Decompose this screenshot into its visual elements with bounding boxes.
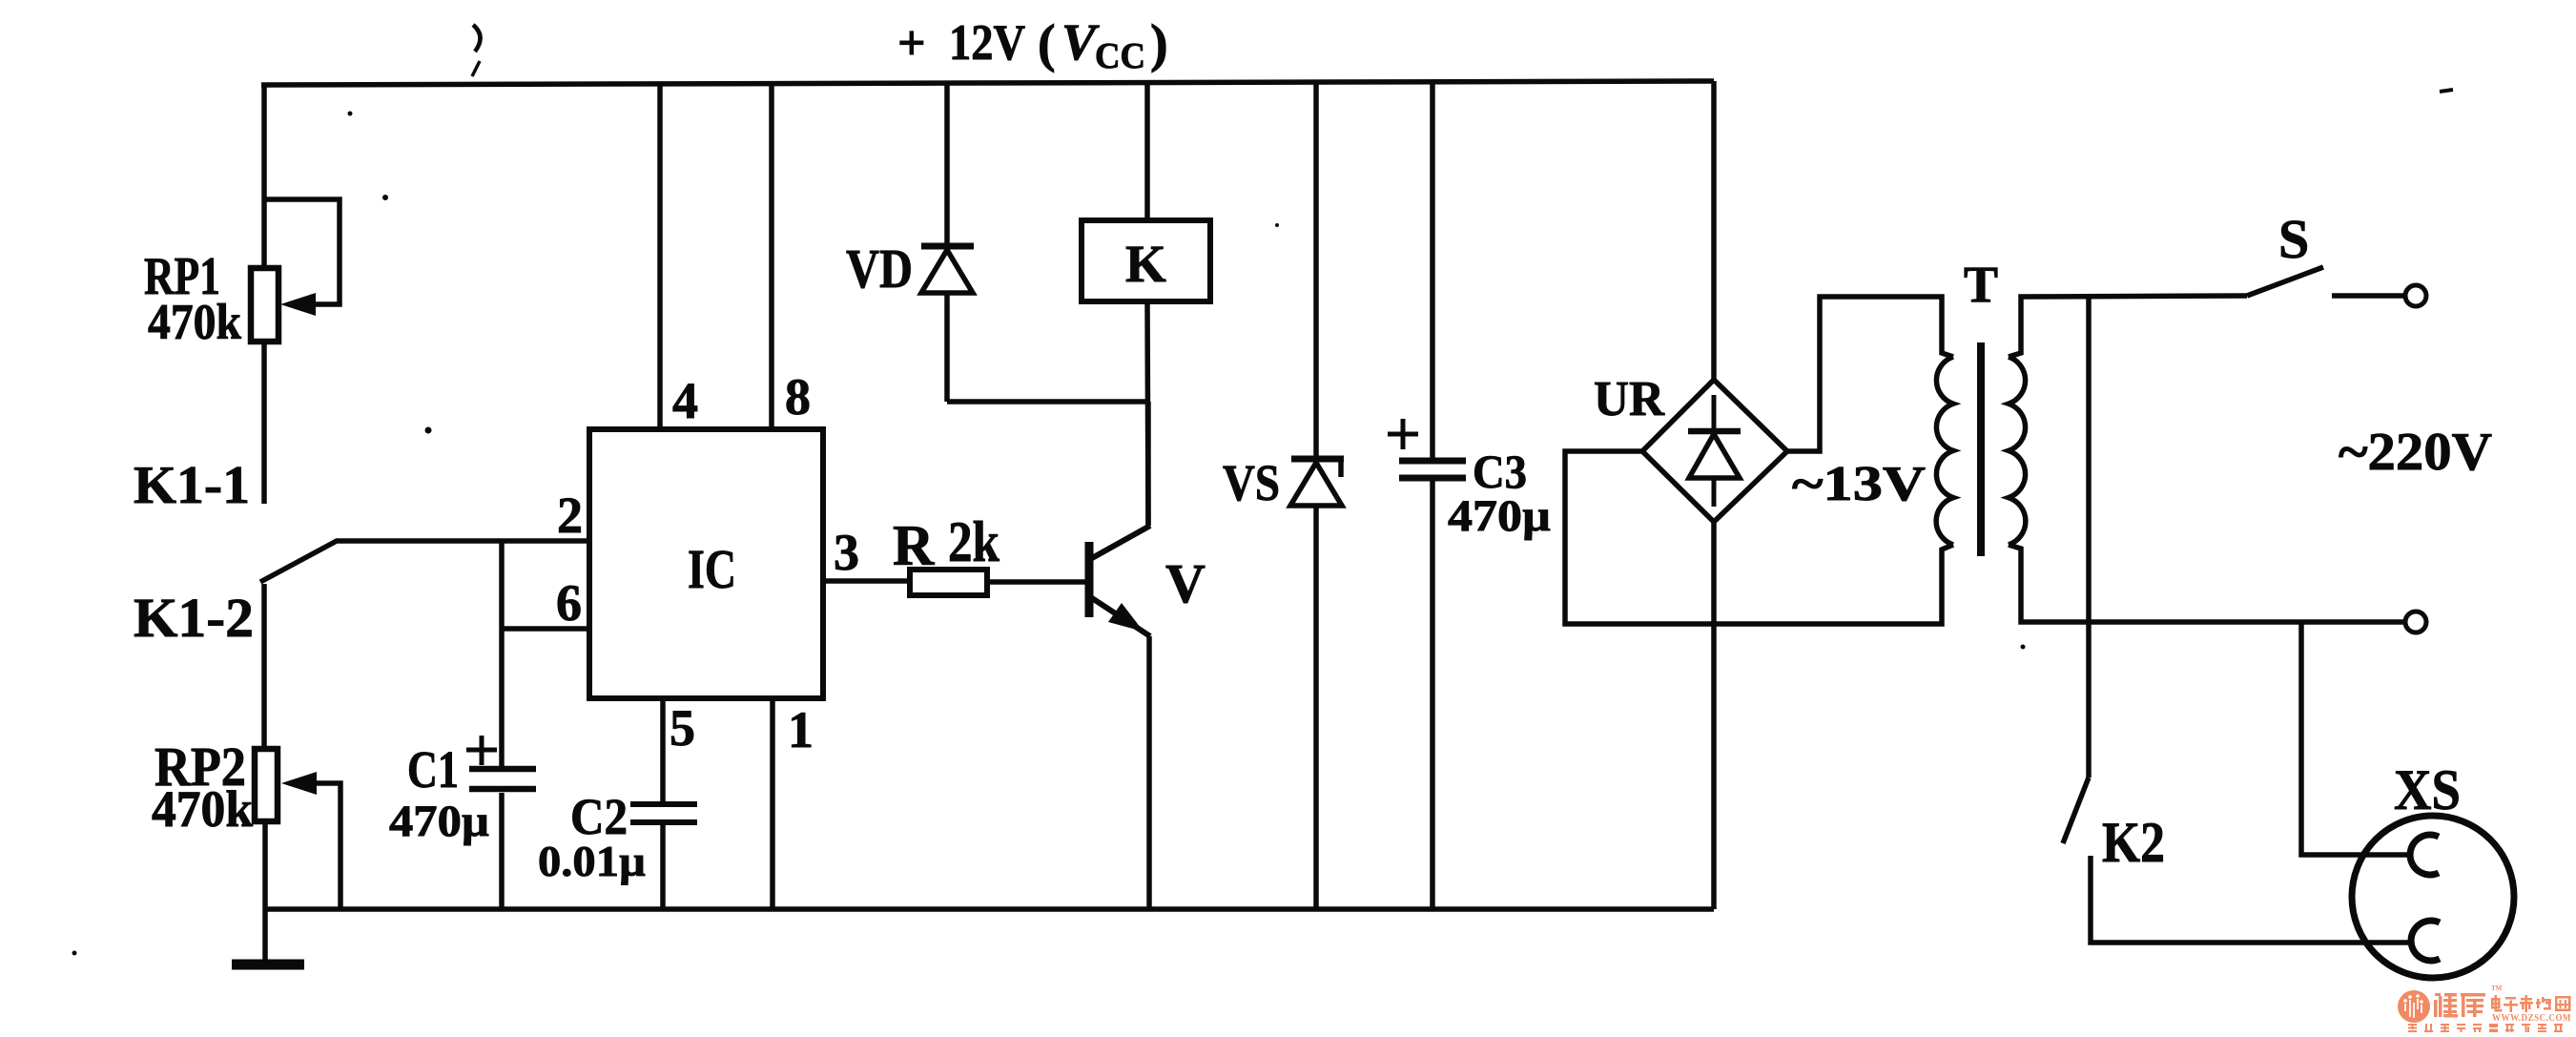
svg-text:K2: K2 — [2102, 811, 2165, 874]
svg-text:470µ: 470µ — [389, 797, 489, 846]
transformer T primary winding — [1936, 357, 1953, 545]
capacitor C1 — [499, 541, 505, 766]
wire pin3 line — [822, 578, 910, 584]
terminal upper — [2405, 285, 2426, 306]
resistor R 2k — [910, 570, 987, 595]
svg-text:2: 2 — [557, 487, 583, 544]
svg-text:+: + — [897, 16, 926, 71]
svg-text:3: 3 — [834, 524, 859, 581]
transformer T secondary winding — [2009, 357, 2026, 545]
场 — [2536, 997, 2551, 1010]
svg-text:IC: IC — [688, 538, 736, 600]
zener diode VS — [1313, 82, 1319, 459]
transformer core — [1977, 342, 1985, 556]
wire pin8 to rail — [769, 83, 774, 429]
wire VD to collector line — [947, 399, 1148, 404]
switch S blade — [2247, 267, 2323, 296]
wire emitter down — [1146, 636, 1152, 909]
node T label — [1964, 256, 1998, 313]
potentiometer RP1 — [251, 268, 278, 342]
svg-text:K: K — [1125, 235, 1166, 293]
svg-text:V: V — [1061, 13, 1100, 71]
node S label — [2278, 208, 2309, 270]
switch K2 blade — [2063, 778, 2089, 843]
svg-text:4: 4 — [672, 372, 698, 429]
node ~220V label — [2339, 423, 2492, 482]
socket XS — [2352, 816, 2514, 978]
wire collector up — [1145, 402, 1151, 526]
wire left branch from rail — [261, 85, 267, 268]
svg-text:8: 8 — [785, 368, 811, 425]
terminal lower — [2405, 612, 2426, 633]
svg-text:470k: 470k — [148, 295, 241, 350]
svg-text:5: 5 — [670, 699, 695, 757]
wire pin6 line — [502, 626, 589, 632]
wire secondary bottom out — [2009, 545, 2405, 622]
ground — [232, 960, 304, 970]
wire pin2 line and switch blade K1 — [260, 541, 589, 582]
wire bridge bottom down to bottom rail — [1711, 522, 1717, 909]
svg-text:12V: 12V — [949, 15, 1025, 71]
svg-text:UR: UR — [1594, 372, 1665, 426]
svg-text:470µ: 470µ — [1448, 491, 1551, 541]
svg-text:2k: 2k — [948, 510, 1000, 573]
wire bridge left corner loop to primary bottom — [1565, 451, 1953, 624]
svg-text:K1-2: K1-2 — [134, 587, 254, 649]
wire XS top contact — [2301, 622, 2410, 855]
电 — [2491, 995, 2503, 1012]
svg-text:6: 6 — [556, 574, 582, 632]
node K1-1 label — [134, 456, 250, 515]
node K1-2 label — [134, 587, 254, 649]
svg-text:(: ( — [1038, 14, 1056, 73]
capacitor C2 on pin5 — [660, 698, 666, 801]
node +12V label — [897, 13, 1168, 76]
专业电子元器件交易网站 row — [2408, 1024, 2563, 1032]
svg-text:V: V — [1165, 552, 1206, 614]
svg-text:K1-1: K1-1 — [134, 456, 250, 515]
svg-text:0.01µ: 0.01µ — [538, 837, 646, 885]
wire bottom rail — [265, 906, 1714, 912]
库 — [2461, 993, 2485, 1017]
svg-text:XS: XS — [2394, 758, 2461, 821]
svg-text:1: 1 — [788, 701, 814, 758]
potentiometer RP2 — [255, 749, 278, 821]
wire rail right end down — [1711, 81, 1717, 380]
svg-text:~13V: ~13V — [1792, 457, 1926, 511]
IC U1 box — [589, 429, 823, 698]
wire pin1 down — [770, 698, 775, 909]
node ~13V label — [1792, 457, 1926, 511]
wire bridge right corner to primary top — [1787, 297, 1953, 451]
svg-text:C1: C1 — [407, 740, 459, 798]
scan specks — [72, 112, 2026, 956]
svg-text:T: T — [1964, 256, 1998, 313]
wire top +12V rail — [261, 81, 1714, 85]
svg-text:CC: CC — [1095, 36, 1145, 76]
bridge rectifier UR — [1642, 380, 1787, 522]
svg-text:C3: C3 — [1473, 445, 1527, 498]
transistor V — [1085, 542, 1094, 617]
svg-text:VS: VS — [1223, 454, 1280, 511]
svg-text:WWW.DZSC.COM: WWW.DZSC.COM — [2492, 1013, 2571, 1024]
svg-text:R: R — [893, 514, 935, 577]
relay K — [1144, 81, 1150, 220]
watermark logo — [2398, 985, 2571, 1032]
svg-text:S: S — [2278, 208, 2309, 270]
wire pin4 to rail — [657, 84, 663, 429]
市 — [2520, 995, 2533, 1012]
子 — [2504, 997, 2518, 1012]
wire RP1 to K1-1 contact — [261, 342, 267, 504]
wire K2 branch down — [2086, 297, 2092, 778]
网 — [2555, 996, 2571, 1011]
svg-text:470k: 470k — [152, 780, 253, 838]
维 — [2434, 993, 2458, 1018]
wire secondary top to switch S — [2009, 296, 2247, 357]
wire RP1 wiper loop — [264, 199, 340, 304]
svg-text:~220V: ~220V — [2339, 423, 2492, 482]
wire RP2 to ground — [262, 821, 268, 963]
pin number labels — [556, 368, 859, 758]
wire S stub — [2332, 293, 2404, 299]
capacitor C3 — [1430, 81, 1435, 458]
svg-text:VD: VD — [846, 238, 913, 300]
wire K1-2 contact down to RP2 — [261, 584, 267, 749]
svg-text:): ) — [1150, 14, 1168, 73]
svg-text:TM: TM — [2491, 985, 2503, 992]
diode VD — [944, 85, 950, 246]
